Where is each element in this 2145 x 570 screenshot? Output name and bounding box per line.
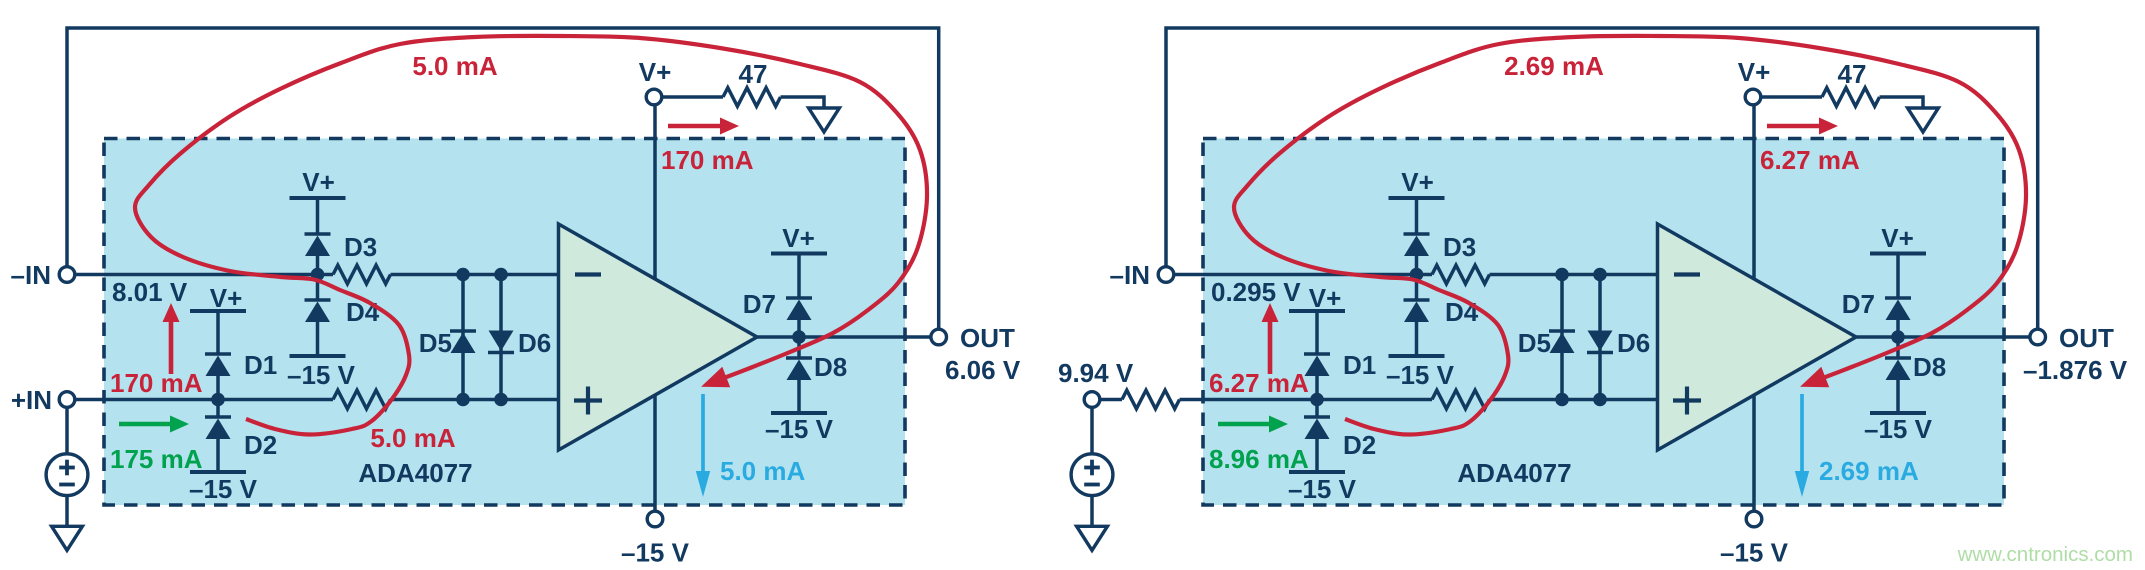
svg-text:–15 V: –15 V — [189, 474, 258, 504]
node junction +IN / D1 / D2 (left) — [211, 393, 225, 407]
svg-text:–15 V: –15 V — [1288, 474, 1357, 504]
node -IN terminal (right) — [1158, 267, 1174, 283]
node -IN terminal (left) — [59, 267, 75, 283]
node junction -IN / D3 / D4 (left) — [311, 268, 325, 282]
-15 V rail below D2 (right) — [1289, 470, 1345, 474]
svg-text:D5: D5 — [1518, 328, 1551, 358]
svg-text:5.0 mA: 5.0 mA — [720, 456, 805, 486]
svg-text:6.27 mA: 6.27 mA — [1760, 145, 1860, 175]
svg-text:47: 47 — [1838, 59, 1867, 89]
wire +IN line into box (right) — [1180, 398, 1433, 402]
ground symbol below source (left) — [52, 526, 83, 550]
V+ rail above D3 (left) — [290, 196, 346, 200]
svg-text:+IN: +IN — [11, 385, 52, 415]
op-amp internal model box ADA4077 (left) — [104, 139, 905, 506]
svg-text:D8: D8 — [1913, 352, 1946, 382]
svg-text:–15 V: –15 V — [765, 414, 834, 444]
svg-text:–15 V: –15 V — [287, 360, 356, 390]
op-amp non-inverting input symbol (left) — [574, 398, 602, 402]
svg-text:www.cntronics.com: www.cntronics.com — [1957, 543, 2133, 566]
wire terminal to voltage source (right) — [1090, 407, 1094, 455]
wire V+ / V- power rail vertical (left) — [653, 97, 657, 519]
green arrow into +IN (right) — [1218, 422, 1271, 427]
svg-text:ADA4077: ADA4077 — [1457, 458, 1571, 488]
svg-text:D8: D8 — [814, 352, 847, 382]
diode D1 (left) — [205, 352, 231, 355]
svg-text:8.96 mA: 8.96 mA — [1209, 444, 1309, 474]
wire source to ground (right) — [1090, 496, 1094, 527]
svg-text:V+: V+ — [1309, 283, 1342, 313]
node D5 bottom (right) — [1555, 393, 1569, 407]
svg-text:9.94 V: 9.94 V — [1058, 358, 1134, 388]
wire op-amp output to OUT (right) — [1856, 335, 2038, 339]
svg-text:D7: D7 — [743, 289, 776, 319]
svg-text:2.69 mA: 2.69 mA — [1819, 456, 1919, 486]
wire -IN input line (left) — [67, 273, 333, 277]
svg-text:6.27 mA: 6.27 mA — [1209, 368, 1309, 398]
wire terminal to voltage source (left) — [65, 407, 69, 455]
svg-text:D6: D6 — [518, 328, 551, 358]
wire 47 resistor to ground (right) — [1880, 97, 1924, 108]
svg-text:OUT: OUT — [2059, 323, 2114, 353]
svg-text:D6: D6 — [1617, 328, 1650, 358]
node D5 bottom (left) — [456, 393, 470, 407]
resistor on +IN line (left) — [333, 390, 391, 409]
svg-text:–IN: –IN — [11, 260, 51, 290]
svg-text:175 mA: 175 mA — [110, 444, 203, 474]
resistor on -IN line (right) — [1432, 265, 1490, 284]
resistor 47 (left) — [723, 88, 781, 107]
op-amp inverting input symbol (right) — [1674, 272, 1700, 276]
svg-text:V+: V+ — [1401, 167, 1434, 197]
svg-text:V+: V+ — [782, 223, 815, 253]
node junction output / D7 / D8 (right) — [1891, 330, 1905, 344]
op-amp U1 ADA4077 triangle (right) — [1658, 224, 1857, 450]
node D6 bottom (left) — [494, 393, 508, 407]
node V+ terminal (right) — [1745, 89, 1761, 105]
wire -IN line to op-amp (left) — [391, 273, 561, 277]
wire V+ to 47 ohm resistor (right) — [1754, 95, 1822, 99]
svg-text:D2: D2 — [1343, 430, 1376, 460]
V+ rail above D7 (left) — [771, 252, 827, 256]
op-amp U1 ADA4077 triangle (left) — [559, 224, 758, 450]
wire +IN input line (left) — [67, 398, 333, 402]
svg-text:5.0 mA: 5.0 mA — [412, 51, 497, 81]
wire -IN input line (right) — [1166, 273, 1432, 277]
-15 V rail below D4 (right) — [1389, 354, 1445, 358]
svg-text:170 mA: 170 mA — [661, 145, 754, 175]
diode D3 (right) — [1404, 232, 1430, 235]
voltage source V1 (left) — [46, 454, 88, 496]
svg-text:170 mA: 170 mA — [110, 368, 203, 398]
resistor on +IN line (right) — [1432, 390, 1490, 409]
svg-text:D1: D1 — [244, 350, 277, 380]
svg-text:8.01 V: 8.01 V — [112, 277, 188, 307]
red arrow into V+ pin (left) — [668, 124, 722, 129]
svg-text:D5: D5 — [419, 328, 452, 358]
diode D4 (left) — [316, 275, 320, 301]
svg-text:V+: V+ — [210, 283, 243, 313]
diode D7 (left) — [786, 296, 812, 299]
svg-text:–1.876 V: –1.876 V — [2023, 355, 2128, 385]
svg-text:–15 V: –15 V — [1864, 414, 1933, 444]
wire V+ / V- power rail vertical (right) — [1752, 97, 1756, 519]
op-amp internal model box ADA4077 (right) — [1203, 139, 2004, 506]
V+ rail above D7 (right) — [1870, 252, 1926, 256]
diode D6 (left) — [499, 275, 503, 400]
wire op-amp output to OUT (left) — [757, 335, 939, 339]
wire 47 resistor to ground (left) — [781, 97, 825, 108]
-15 V rail below D4 (left) — [290, 354, 346, 358]
V+ rail above D1 (left) — [190, 309, 246, 313]
diode D5 (left) — [461, 275, 465, 400]
red current loop curve 5.0 mA (left) — [135, 36, 927, 435]
diode D4 (right) — [1415, 275, 1419, 301]
red arrow into V+ pin (right) — [1767, 124, 1821, 129]
red arrow up through D1 (left) — [169, 320, 174, 374]
svg-text:V+: V+ — [302, 167, 335, 197]
wire feedback loop -IN to OUT (left) — [67, 28, 939, 337]
diode D8 (left) — [797, 337, 801, 358]
ground symbol below source (right) — [1077, 526, 1108, 550]
node junction +IN / D1 / D2 (right) — [1310, 393, 1324, 407]
wire +IN line to op-amp (right) — [1490, 398, 1660, 402]
svg-text:ADA4077: ADA4077 — [358, 458, 472, 488]
svg-text:–15 V: –15 V — [1720, 538, 1789, 568]
wire V+ to 47 ohm resistor (left) — [655, 95, 723, 99]
resistor 47 (right) — [1822, 88, 1880, 107]
svg-text:V+: V+ — [1881, 223, 1914, 253]
V+ rail above D1 (right) — [1289, 309, 1345, 313]
node source terminal (right) — [1084, 392, 1100, 408]
ground symbol top (left) — [809, 108, 840, 132]
wire -IN line to op-amp (right) — [1490, 273, 1660, 277]
node OUT terminal (right) — [2030, 329, 2046, 345]
wire feedback loop -IN to OUT (right) — [1166, 28, 2038, 337]
red arrow up through D1 (right) — [1268, 320, 1273, 374]
V+ rail above D3 (right) — [1389, 196, 1445, 200]
node D5 top (left) — [456, 268, 470, 282]
-15 V rail below D8 (right) — [1870, 411, 1926, 415]
svg-text:–IN: –IN — [1110, 260, 1150, 290]
svg-text:–15 V: –15 V — [1386, 360, 1455, 390]
diode D8 (right) — [1896, 337, 1900, 358]
node junction output / D7 / D8 (left) — [792, 330, 806, 344]
diode D3 (left) — [305, 232, 331, 235]
cyan arrow out of V- pin (right) — [1800, 394, 1804, 473]
svg-text:D7: D7 — [1842, 289, 1875, 319]
node OUT terminal (left) — [931, 329, 947, 345]
svg-text:2.69 mA: 2.69 mA — [1504, 51, 1604, 81]
diode D6 (right) — [1598, 275, 1602, 400]
svg-text:5.0 mA: 5.0 mA — [370, 423, 455, 453]
diode D1 (right) — [1304, 352, 1330, 355]
op-amp non-inverting input symbol (right) — [1673, 398, 1701, 402]
svg-text:OUT: OUT — [960, 323, 1015, 353]
resistor from 9.94 V source into +IN (right) — [1122, 390, 1180, 409]
svg-text:D1: D1 — [1343, 350, 1376, 380]
svg-text:0.295 V: 0.295 V — [1211, 277, 1301, 307]
node V+ terminal (left) — [646, 89, 662, 105]
diode D2 (left) — [216, 400, 220, 418]
node D6 top (left) — [494, 268, 508, 282]
svg-text:D3: D3 — [1443, 232, 1476, 262]
cyan arrow out of V- pin (left) — [701, 394, 705, 473]
ground symbol top (right) — [1908, 108, 1939, 132]
wire +IN line to op-amp (left) — [391, 398, 561, 402]
diode D5 (right) — [1560, 275, 1564, 400]
node D6 top (right) — [1593, 268, 1607, 282]
svg-text:D2: D2 — [244, 430, 277, 460]
voltage source V1 (right) — [1071, 454, 1113, 496]
svg-text:–15 V: –15 V — [621, 538, 690, 568]
wire source to ground (left) — [65, 496, 69, 527]
node D5 top (right) — [1555, 268, 1569, 282]
-15 V rail below D2 (left) — [190, 470, 246, 474]
node source terminal (left) — [59, 392, 75, 408]
node D6 bottom (right) — [1593, 393, 1607, 407]
svg-text:6.06 V: 6.06 V — [945, 355, 1021, 385]
node -15 V supply terminal (left) — [647, 511, 663, 527]
diode D7 (right) — [1885, 296, 1911, 299]
-15 V rail below D8 (left) — [771, 411, 827, 415]
green arrow into +IN (left) — [119, 422, 172, 427]
diode D2 (right) — [1315, 400, 1319, 418]
svg-text:V+: V+ — [1738, 57, 1771, 87]
svg-text:D3: D3 — [344, 232, 377, 262]
op-amp inverting input symbol (left) — [575, 272, 601, 276]
svg-text:V+: V+ — [639, 57, 672, 87]
wire source terminal to resistor (right) — [1092, 398, 1122, 402]
node -15 V supply terminal (right) — [1746, 511, 1762, 527]
resistor on -IN line (left) — [333, 265, 391, 284]
node junction -IN / D3 / D4 (right) — [1410, 268, 1424, 282]
red current loop curve 2.69 mA (right) — [1234, 36, 2026, 435]
svg-text:47: 47 — [739, 59, 768, 89]
